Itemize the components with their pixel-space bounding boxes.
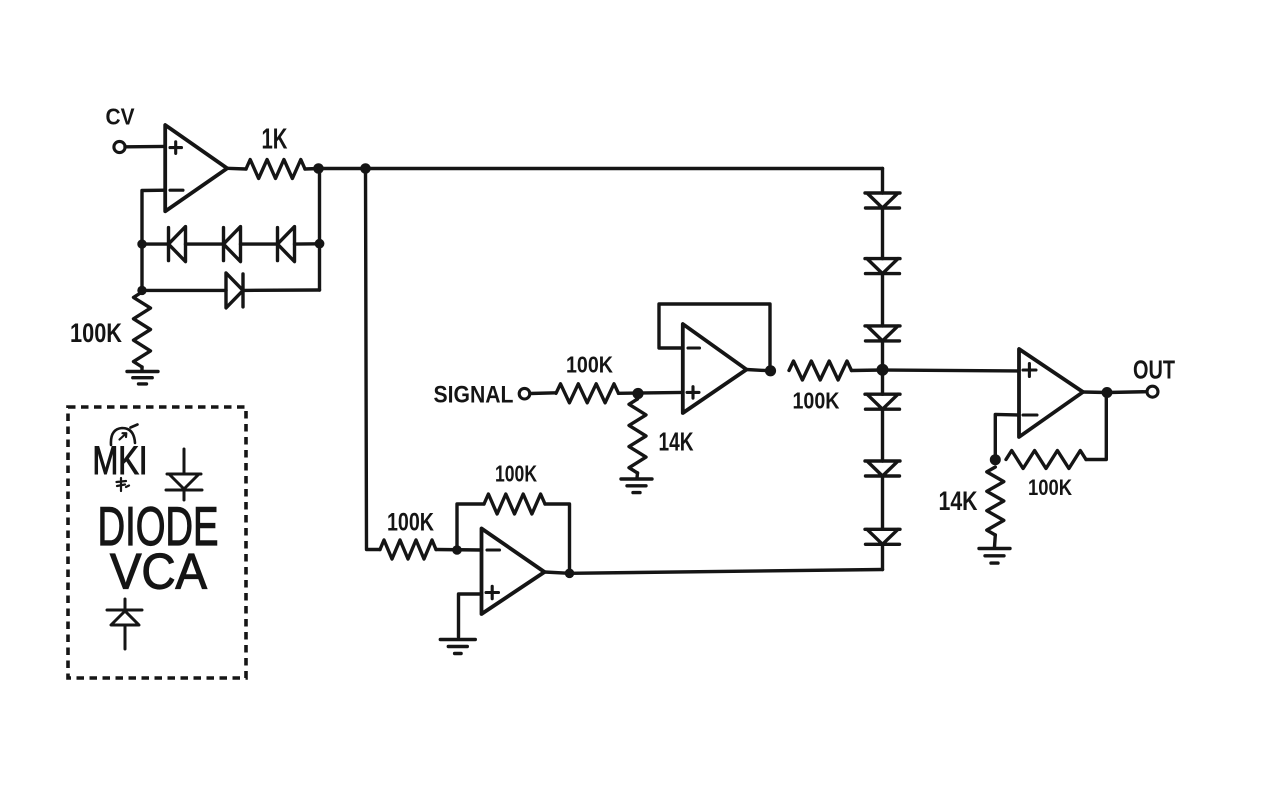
ground	[621, 479, 652, 493]
wire	[457, 504, 484, 550]
wire	[545, 504, 570, 573]
op-amp U4	[1019, 349, 1083, 437]
wire	[659, 304, 770, 371]
diode doodle (down)	[166, 449, 202, 500]
wire	[227, 167, 246, 171]
op-amp U2	[683, 324, 747, 413]
U1 + input marker	[170, 142, 182, 154]
svg-text:100K: 100K	[495, 461, 537, 487]
U2 - input marker	[688, 346, 700, 349]
resistor 14K	[629, 399, 646, 473]
wire	[881, 169, 884, 194]
diode D4	[226, 273, 243, 308]
wire	[881, 476, 884, 529]
wire	[140, 367, 143, 371]
svg-text:100K: 100K	[387, 509, 434, 537]
U1 - input marker	[170, 189, 183, 192]
SIGNAL input terminal	[519, 388, 530, 399]
wire	[995, 414, 1019, 459]
OUT terminal	[1147, 386, 1158, 397]
diode D7	[865, 326, 900, 341]
op-amp U1	[165, 125, 227, 211]
U3 + input marker	[486, 586, 499, 598]
U4 - input marker	[1023, 413, 1037, 416]
wire	[881, 341, 884, 394]
node junction	[1102, 387, 1113, 398]
resistor 100K	[134, 292, 151, 367]
diode D3	[278, 227, 295, 262]
wire	[530, 391, 556, 395]
wire	[243, 288, 320, 292]
ground	[127, 372, 158, 384]
MKI doodle arrow	[120, 433, 127, 439]
diode D10	[865, 529, 900, 544]
wire	[142, 289, 226, 292]
CV input terminal	[114, 141, 125, 152]
resistor 1K	[246, 160, 305, 179]
svg-text:CV: CV	[106, 104, 136, 130]
wire	[142, 190, 165, 290]
wire	[619, 391, 683, 395]
wire	[142, 242, 169, 245]
U2 + input marker	[687, 387, 699, 398]
wire	[125, 145, 165, 149]
node junction	[632, 388, 643, 399]
wire	[1083, 390, 1107, 394]
wire	[1086, 393, 1106, 460]
ground	[979, 549, 1010, 564]
wire	[186, 242, 224, 245]
node junction	[315, 239, 325, 249]
wire	[881, 274, 884, 326]
ground	[440, 640, 475, 654]
wire	[747, 370, 771, 371]
U4 + input marker	[1023, 364, 1036, 377]
resistor 100K	[789, 361, 852, 380]
wire	[305, 167, 319, 171]
op-amp U3	[482, 529, 545, 615]
wire	[881, 544, 884, 569]
resistor 14K	[987, 467, 1004, 535]
svg-text:VCA: VCA	[110, 544, 208, 600]
wire	[436, 548, 482, 552]
svg-text:14K: 14K	[659, 427, 694, 457]
wire	[241, 242, 278, 245]
svg-text:100K: 100K	[566, 352, 613, 378]
wire	[883, 370, 1020, 371]
node junction B	[360, 163, 371, 174]
svg-text:OUT: OUT	[1133, 355, 1175, 385]
diode D1	[169, 227, 186, 262]
svg-text:14K: 14K	[939, 486, 978, 516]
resistor 100K	[380, 540, 436, 559]
diode D2	[224, 227, 241, 262]
node junction	[137, 286, 146, 295]
wire	[318, 169, 321, 291]
wire	[366, 167, 883, 170]
resistor 100K	[484, 494, 545, 514]
svg-text:SIGNAL: SIGNAL	[434, 382, 514, 409]
node junction	[565, 569, 575, 579]
wire	[635, 473, 639, 478]
node junction	[990, 454, 1001, 465]
svg-text:100K: 100K	[1028, 475, 1072, 500]
diode doodle (up)	[107, 599, 142, 649]
wire	[1107, 390, 1147, 394]
node junction A	[313, 163, 324, 174]
resistor 100K	[556, 384, 619, 403]
title box (dashed)	[68, 407, 246, 678]
diode D9	[865, 461, 900, 476]
node junction	[137, 239, 146, 248]
wire	[295, 242, 320, 246]
wire	[881, 409, 884, 461]
node junction	[765, 365, 776, 376]
wire	[319, 167, 366, 170]
U3 - input marker	[487, 548, 500, 551]
diode D5	[865, 193, 900, 208]
svg-text:1K: 1K	[262, 124, 288, 156]
svg-text:100K: 100K	[70, 318, 122, 348]
node junction	[452, 545, 462, 555]
wire	[881, 208, 884, 259]
wire	[570, 570, 883, 574]
wire	[545, 572, 570, 573]
wire	[993, 535, 997, 547]
svg-text:MKI: MKI	[93, 439, 148, 483]
MKI doodle arc	[111, 425, 138, 446]
diode D6	[865, 259, 900, 274]
wire	[459, 594, 482, 637]
MKI doodle dagger	[117, 478, 130, 491]
resistor 100K	[1006, 451, 1086, 469]
wire	[366, 169, 381, 550]
svg-text:100K: 100K	[793, 388, 840, 414]
diode D8	[865, 394, 900, 409]
wire	[852, 368, 883, 372]
node junction	[877, 364, 889, 376]
